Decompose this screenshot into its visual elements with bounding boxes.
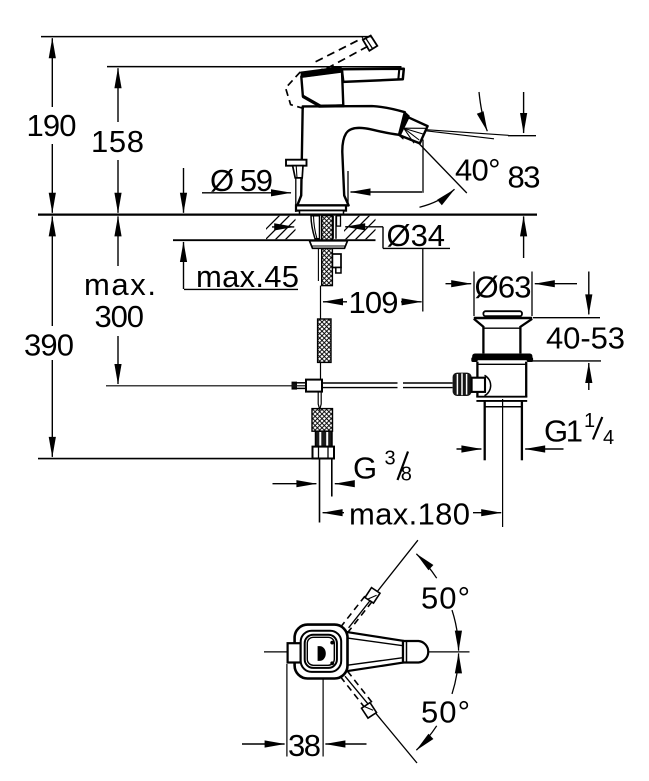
svg-text:83: 83 <box>508 160 541 195</box>
svg-text:300: 300 <box>95 299 145 334</box>
raised lever tip cap <box>363 36 377 51</box>
horseshoe washer <box>310 241 348 249</box>
svg-text:190: 190 <box>27 108 77 143</box>
svg-text:109: 109 <box>349 285 399 320</box>
handle dots <box>330 641 334 645</box>
faucet body and spout <box>297 106 405 205</box>
top view escutcheon outer <box>295 625 348 679</box>
aerator fan lines <box>404 128 426 143</box>
lever tip marker +50 <box>365 588 380 604</box>
handle top face (dark band) <box>300 66 342 78</box>
extension line (158) <box>107 66 402 68</box>
dimension max.45 <box>183 168 185 213</box>
dimension 38 <box>286 664 288 757</box>
svg-text:50°: 50° <box>421 580 470 615</box>
knurled rod knob <box>453 373 472 396</box>
top view lever grip <box>403 641 428 663</box>
svg-text:Ø63: Ø63 <box>475 270 532 305</box>
40 degree construction lines <box>422 140 424 193</box>
waste push cap <box>483 311 522 316</box>
waste centerline <box>502 399 504 527</box>
svg-text:4: 4 <box>603 427 614 449</box>
svg-text:G1: G1 <box>544 414 583 449</box>
mounting hole spacer left <box>311 216 320 239</box>
centerline left <box>264 651 288 653</box>
aerator head <box>400 117 428 143</box>
hose hairline upper <box>320 286 322 319</box>
dashed lever +50 <box>341 594 374 633</box>
rod level extension line <box>106 385 307 387</box>
40-53 extension lines <box>533 317 600 319</box>
G3/8 connector nut <box>313 447 335 459</box>
svg-text:1: 1 <box>584 410 595 432</box>
mounting hole spacer right <box>332 216 334 239</box>
spout joint dark band <box>398 112 410 140</box>
hose ferrule <box>316 431 333 446</box>
top view pop-up knob <box>288 643 301 662</box>
pop-up rod coupling block <box>292 382 298 390</box>
40 degree arc <box>420 189 455 207</box>
50 degree arc upper <box>452 610 459 651</box>
svg-text:158: 158 <box>91 124 144 159</box>
svg-text:3: 3 <box>385 447 396 469</box>
dimension 190 <box>51 38 53 107</box>
centerline right <box>429 651 470 653</box>
handle ghost (dashed rotated body) <box>286 69 337 110</box>
svg-text:max.: max. <box>84 267 156 302</box>
svg-text:G: G <box>353 450 377 485</box>
50 degree arc lower <box>452 653 459 694</box>
dimension max.300 <box>117 216 119 266</box>
pop-up rod (vertical, in front of shank) <box>317 248 319 281</box>
braided hose upper (cross-hatched) <box>318 319 331 362</box>
svg-text:max.45: max.45 <box>196 259 299 294</box>
svg-text:50°: 50° <box>421 694 470 729</box>
deck bottom line <box>173 239 376 241</box>
deck top line <box>38 214 537 216</box>
lever (horizontal) <box>342 69 404 82</box>
extension line top (190) <box>41 36 372 38</box>
braided hose lower (cross-hatched) <box>312 409 333 432</box>
mounting nut side block <box>332 254 341 268</box>
knob boss <box>472 378 485 392</box>
dimension 158 <box>117 68 119 122</box>
svg-text:max.180: max.180 <box>349 496 470 531</box>
top view lever <box>342 631 404 672</box>
waste body <box>478 363 526 365</box>
handle D mark <box>318 646 326 661</box>
svg-text:38: 38 <box>288 728 321 763</box>
pop-up waste: diam 63 extension lines <box>473 272 475 317</box>
svg-text:8: 8 <box>401 464 412 486</box>
handle chamfer thick edge <box>303 96 320 106</box>
svg-text:40-53: 40-53 <box>546 321 625 356</box>
handle bottom thick edge <box>319 104 345 108</box>
horizontal actuating rod <box>322 382 398 384</box>
baseline 390 bottom <box>38 458 316 460</box>
handle body <box>301 71 343 106</box>
waste flange top <box>474 317 532 320</box>
swing leg +50 <box>349 540 418 628</box>
threaded shank (cross-hatched) <box>322 216 333 286</box>
hose hairline middle <box>320 362 322 380</box>
supply pipe <box>319 459 321 523</box>
top view handle rings <box>301 631 342 672</box>
dimension 390 <box>51 216 53 326</box>
swing leg -50 <box>345 676 417 763</box>
svg-text:40°: 40° <box>455 152 501 187</box>
rubber seal ring (black) <box>472 354 532 361</box>
dashed lever -50 <box>341 671 374 710</box>
handle ghost lever raised (dashed) <box>316 38 368 69</box>
pop-up rod lower tip <box>318 392 321 410</box>
waste neck <box>482 326 484 353</box>
pop-up pull knob (left of body) <box>286 160 307 166</box>
waste flange sides <box>474 319 484 327</box>
svg-text:390: 390 <box>24 328 74 363</box>
waste tailpipe <box>484 401 486 460</box>
lever tip marker -50 <box>362 703 377 719</box>
faucet base plate <box>296 205 346 210</box>
